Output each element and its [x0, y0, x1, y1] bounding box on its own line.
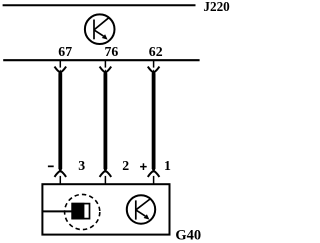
svg-text:3: 3: [78, 158, 85, 173]
svg-text:J220: J220: [203, 0, 230, 14]
svg-text:1: 1: [164, 158, 171, 173]
svg-text:67: 67: [58, 44, 72, 59]
svg-text:G40: G40: [175, 227, 201, 243]
svg-text:76: 76: [105, 44, 119, 59]
svg-text:2: 2: [122, 158, 129, 173]
svg-text:62: 62: [149, 44, 163, 59]
